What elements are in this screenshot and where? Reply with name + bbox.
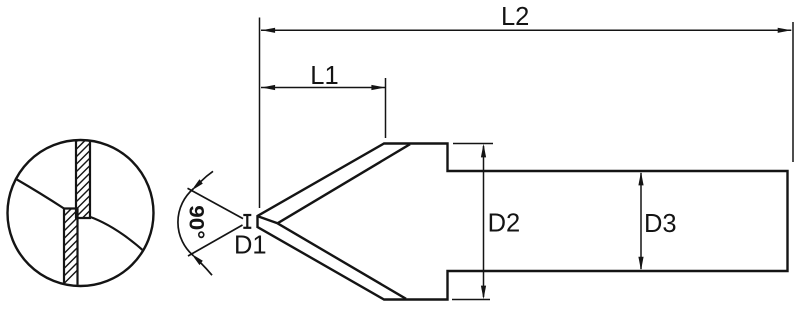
angle arc arrows bbox=[191, 171, 213, 275]
D1 tick mark (I) bbox=[243, 215, 251, 228]
inner top slant bbox=[278, 144, 411, 223]
chisel edge bbox=[259, 217, 278, 224]
svg-text:D3: D3 bbox=[644, 210, 677, 238]
D3 dimension line bbox=[640, 173, 642, 269]
inner bottom slant bbox=[278, 223, 407, 298]
svg-text:L2: L2 bbox=[501, 3, 529, 31]
end view circle bbox=[8, 122, 154, 290]
side view outline bbox=[258, 144, 788, 300]
L2 dimension line bbox=[261, 29, 791, 31]
upper V line bbox=[188, 188, 244, 218]
D2 bottom extension bbox=[452, 299, 490, 301]
body profile bbox=[258, 144, 788, 300]
flute band lower bbox=[63, 209, 79, 291]
svg-text:90°: 90° bbox=[185, 205, 209, 239]
hatch lower band bbox=[58, 196, 84, 290]
lower V line bbox=[188, 225, 243, 256]
D2 down arrow bbox=[481, 286, 486, 300]
hatch upper band bbox=[70, 122, 96, 238]
svg-text:D2: D2 bbox=[488, 210, 521, 238]
flute band upper bbox=[75, 134, 91, 218]
angle annotation: V lines bbox=[178, 188, 243, 256]
top arc arrow bbox=[191, 179, 203, 190]
L1 right extension bbox=[385, 78, 387, 138]
flute curve right bbox=[89, 217, 146, 254]
angle arc bbox=[178, 189, 193, 256]
flute curve left bbox=[16, 179, 64, 209]
D2 top extension bbox=[453, 143, 493, 145]
L2 left arrow bbox=[262, 28, 276, 33]
left extension line bbox=[259, 18, 261, 209]
L1 dimension line bbox=[261, 87, 385, 89]
L1 left arrow bbox=[262, 85, 276, 90]
D3 up arrow bbox=[638, 172, 643, 186]
D2 dimension line bbox=[483, 146, 485, 297]
D2 up arrow bbox=[481, 144, 486, 158]
dimension lines bbox=[260, 18, 794, 300]
svg-text:D1: D1 bbox=[234, 232, 267, 260]
D3 down arrow bbox=[638, 257, 643, 271]
right extension line bbox=[792, 22, 794, 162]
svg-text:L1: L1 bbox=[310, 62, 338, 90]
arrowheads bbox=[262, 28, 792, 300]
L2 right arrow bbox=[778, 28, 792, 33]
L1 right arrow bbox=[371, 85, 385, 90]
bottom arc arrow bbox=[191, 254, 203, 265]
